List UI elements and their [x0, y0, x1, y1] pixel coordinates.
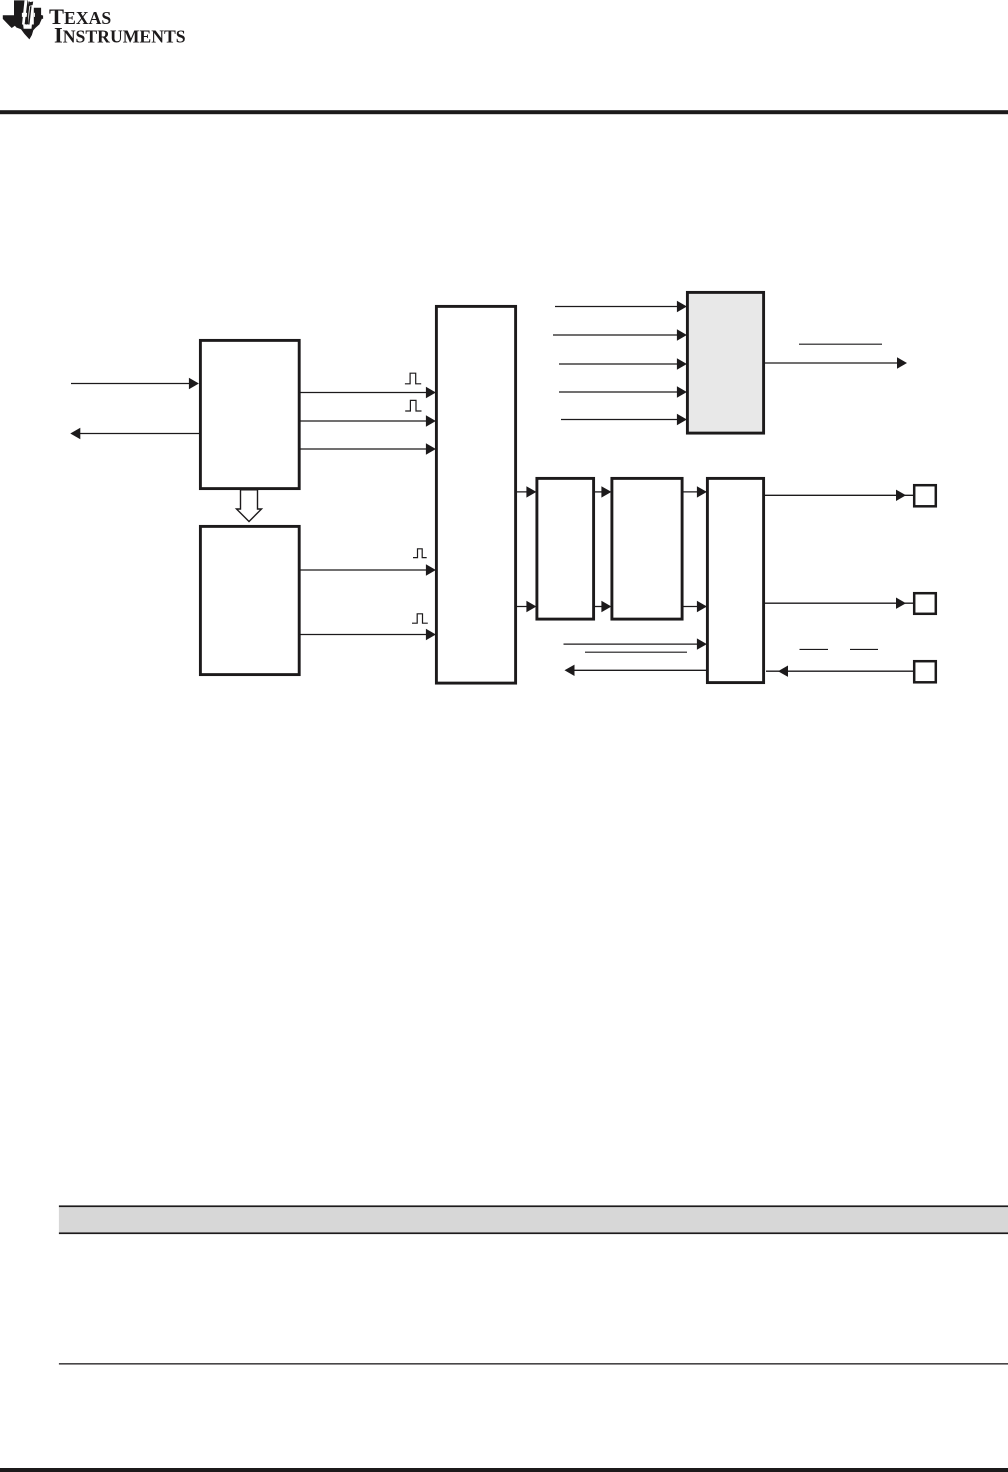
overline label above gray box output	[799, 343, 882, 345]
overline dash 1	[800, 648, 829, 650]
wire: gray box input 3	[559, 363, 685, 365]
arrowhead box1-tallbox 2	[426, 415, 436, 426]
table header bottom rule	[59, 1232, 1008, 1234]
table header band	[59, 1207, 1008, 1232]
wire: box A to box B middle row	[595, 606, 610, 608]
arrowhead graybox in 5	[677, 414, 687, 425]
block: box2	[200, 526, 299, 674]
wire: tall box to box A top row	[516, 491, 535, 493]
white bottom bar under ti	[23, 24, 32, 28]
terminal square 3	[914, 661, 936, 682]
arrowhead graybox in 1	[677, 301, 687, 312]
pulse symbol 1	[405, 373, 428, 623]
block arrow from box1 to box2	[237, 490, 262, 522]
white notch in block left edge	[34, 13, 35, 17]
wire: box B to box C top row	[683, 491, 706, 493]
arrowhead bus into box C	[697, 638, 707, 649]
wire: box1 to tall box line 2	[300, 420, 434, 422]
arrowhead box2-tallbox 2	[426, 629, 436, 640]
page footer rule	[0, 1468, 1008, 1472]
arrowhead into box B mid	[601, 601, 611, 612]
table bottom rule	[59, 1363, 1008, 1364]
arrowhead left into box C right	[778, 666, 788, 677]
white t crossbar region	[22, 13, 27, 17]
arrowhead box1-tallbox 3	[426, 443, 436, 454]
pulse symbol 4	[412, 614, 428, 623]
arrowhead into box A top	[526, 486, 536, 497]
TI wordmark TEXAS	[49, 4, 186, 48]
arrowhead into box A mid	[526, 601, 536, 612]
terminal square 1	[914, 485, 936, 506]
TI logo: Texas state glyph	[3, 0, 43, 39]
arrowhead into box B top	[601, 486, 611, 497]
wire: input to box1	[71, 383, 197, 385]
block: box A	[537, 478, 594, 619]
pulse symbol 2	[405, 400, 421, 411]
arrowhead into box C top	[697, 486, 707, 497]
block: tall center box	[436, 306, 515, 683]
wire: gray box input 2	[553, 334, 685, 336]
wire: gray box input 5	[561, 419, 685, 421]
arrowhead box1-tallbox 1	[426, 387, 436, 398]
arrowhead box2-tallbox 1	[426, 564, 436, 575]
arrowhead graybox in 2	[677, 329, 687, 340]
header rule	[0, 110, 1008, 114]
wire: bus into box C	[564, 643, 705, 645]
arrowhead box C output left	[565, 665, 575, 676]
pulse symbol 3	[413, 549, 427, 558]
wire: output from box1 to left	[72, 433, 199, 435]
arrowhead graybox in 4	[677, 386, 687, 397]
wire: box2 to tall box line 2	[300, 634, 434, 636]
arrowhead graybox in 3	[677, 358, 687, 369]
state silhouette	[3, 0, 43, 39]
arrowhead into box1	[189, 378, 199, 389]
arrowhead into box C mid	[697, 601, 707, 612]
wire: gray box input 1	[555, 306, 685, 308]
arrowhead out left of box1	[70, 428, 80, 439]
black i stem (slanted)	[28, 6, 31, 24]
wire: box C to square 2	[765, 602, 913, 604]
bus underline	[585, 651, 687, 653]
wire: box2 to tall box line 1	[300, 569, 434, 571]
overline dash 2	[850, 648, 878, 650]
wire: square 3 to box C	[766, 670, 913, 672]
block: box B	[612, 478, 682, 619]
wire: tall box to box A middle row	[516, 606, 535, 608]
black i dot slash above state	[28, 2, 33, 7]
wire: box A to box B top row	[595, 491, 610, 493]
block: CPU box1	[200, 340, 299, 488]
arrowhead graybox output	[897, 357, 907, 368]
table header top rule	[59, 1205, 1008, 1207]
black t stem (slanted)	[26, 2, 30, 25]
block: gray box top-right	[687, 292, 763, 433]
arrowhead to square 1	[896, 490, 906, 501]
wire: box1 to tall box line 1	[300, 392, 434, 394]
block: box C	[707, 478, 763, 682]
wire: box1 to tall box line 3	[300, 448, 434, 450]
white region right of stems	[28, 0, 34, 24]
terminal square 2	[914, 593, 936, 614]
wire: box B to box C middle row	[683, 606, 706, 608]
wire: gray box input 4	[559, 391, 685, 393]
wire: box C output to left	[567, 669, 706, 671]
wire: gray box output	[764, 362, 905, 364]
arrowhead to square 2	[896, 598, 906, 609]
svg-text:INSTRUMENTS: INSTRUMENTS	[54, 23, 186, 48]
wire: box C to square 1	[765, 494, 913, 496]
white channel left of t stem	[22, 0, 28, 24]
